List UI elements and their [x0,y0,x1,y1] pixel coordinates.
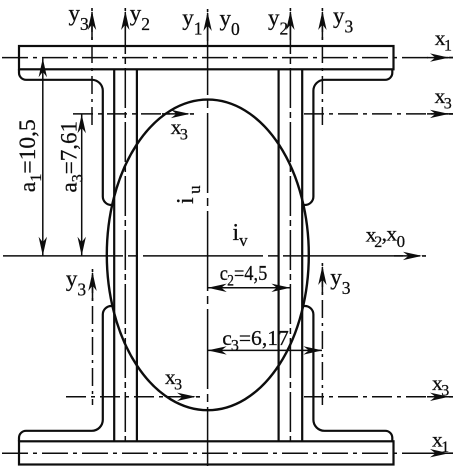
svg-text:y3: y3 [66,266,87,300]
svg-text:x3: x3 [165,365,182,394]
dim arrows a3 [78,114,86,133]
dim arrows c3 [208,346,227,354]
arrowhead x1 top [430,53,449,61]
axis x3 bottom-right [304,396,448,398]
axis y3 bottom-left [92,275,94,405]
arrow tip nubs [92,8,453,453]
svg-text:y3: y3 [330,265,351,299]
axis x1 bottom [2,452,448,454]
axis y2 left [124,14,126,441]
dimension line c3 [208,349,322,351]
svg-text:y2: y2 [130,1,150,35]
top plate [19,46,394,69]
arrowhead y3 bottom-right [318,266,326,285]
left web plate [114,69,137,441]
arrowhead x3 bottom-left [177,393,196,401]
dimension line a1 [42,58,44,255]
arrowhead y1,y0 [203,12,211,31]
svg-text:y2: y2 [268,5,288,39]
bottom plate [19,441,394,464]
dimension line c2 [208,287,290,289]
axis x3 top-left [73,113,186,115]
svg-text:iu: iu [173,185,204,204]
dim arrows a1 [39,58,47,77]
ellipse of inertia [107,100,309,411]
svg-text:x3: x3 [171,115,188,144]
arrowhead y3 top-right [318,11,326,30]
svg-text:y1: y1 [182,5,202,39]
dimension line a3 [81,114,83,255]
axis y3 top-left [91,14,93,129]
axis x2,x0 [3,255,418,257]
right web plate [279,69,303,441]
svg-text:iv: iv [233,220,249,250]
arrowhead y2 right [286,11,294,30]
arrowhead x3 bottom-right [430,393,449,401]
svg-text:x1: x1 [435,26,452,55]
svg-text:x3: x3 [435,84,452,113]
dim arrows c2 [208,284,227,292]
axis y2 right [289,14,291,441]
axis y1,y0 center [207,15,209,466]
axis y3 bottom-right [321,269,323,405]
angle BR [302,306,392,441]
angle TR [302,69,392,205]
svg-text:x2,x0: x2,x0 [366,222,405,252]
arrowhead x2,x0 [403,252,422,260]
svg-text:y0: y0 [220,6,241,40]
arrowhead y3 bottom-left [88,272,96,291]
arrowhead x3 top-right [430,110,449,118]
angle TL [19,69,114,205]
arrowhead y2 left [121,11,129,30]
axis y3 top-right [321,14,323,129]
svg-text:c2=4,5: c2=4,5 [220,261,268,290]
arrowhead y3 top-left [88,11,96,30]
svg-text:y3: y3 [69,1,90,35]
arrowhead x1 bottom [430,449,449,457]
axis x3 bottom-left [66,396,192,398]
axis x1 top [2,57,448,59]
arrowhead x3 top-left [171,110,190,118]
angle BL [19,306,114,441]
axis x3 top-right [304,113,448,115]
svg-text:a1=10,5: a1=10,5 [15,119,45,192]
arrow stems [92,12,453,453]
svg-text:y3: y3 [333,3,354,37]
